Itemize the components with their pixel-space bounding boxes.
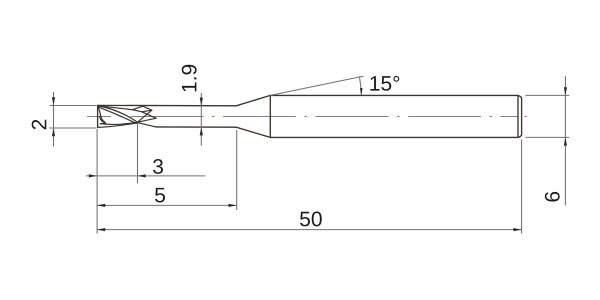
angle 15 leader line — [270, 76, 363, 95]
valley to neck bottom edge — [137, 123, 155, 127]
dimension 3 extension line right — [86, 123, 205, 234]
dimension 6 arrows — [564, 87, 567, 145]
angle 15 label — [370, 76, 399, 91]
dimension 5 line — [97, 204, 237, 206]
dimension 3 label — [153, 159, 163, 174]
dimension 6 line — [564, 76, 566, 206]
bottom groove band upper edge — [100, 122, 137, 124]
dimension 3 arrows — [89, 174, 146, 177]
dimension 6 extension lines — [526, 76, 570, 206]
shank bottom — [270, 136, 517, 138]
dimension 1.9 arrows — [200, 98, 203, 136]
dimension 50 arrows — [97, 228, 522, 231]
left common extension line — [96, 129, 98, 234]
taper bottom — [236, 127, 270, 137]
shank top — [270, 94, 517, 96]
angle 15 arc — [360, 77, 362, 95]
centerline end dot — [525, 116, 528, 118]
dimension 50 label — [300, 212, 322, 227]
neck bottom — [156, 126, 237, 128]
shank end chamfer top — [517, 95, 521, 98]
dimension 2 line — [53, 92, 55, 147]
helix cutting edge line — [98, 106, 138, 123]
tip gash outer curve — [100, 116, 106, 123]
top silhouette: cut + neck — [98, 104, 237, 106]
dimension 2 extension lines — [50, 92, 97, 147]
dimension 6 label — [545, 192, 560, 202]
dimension 2 label — [32, 120, 47, 130]
runout edge notch bottom to point — [142, 112, 156, 118]
far flute helix line — [98, 106, 133, 110]
dimension 5 extension line right — [97, 130, 237, 210]
runout edge point to valley — [138, 118, 157, 122]
tool body outline — [98, 95, 522, 137]
shank end chamfer bottom — [517, 134, 521, 137]
taper top — [236, 95, 270, 105]
flute detail — [98, 106, 157, 128]
dimension 5 arrows — [97, 204, 237, 207]
end tooth edge — [98, 106, 101, 116]
dimension 1.9 label — [182, 65, 197, 92]
shank chamfer edge — [517, 95, 519, 137]
dimension 1.9 line — [200, 93, 202, 146]
dimension 5 label — [155, 188, 165, 203]
helix land lower line — [98, 107, 136, 124]
runout edge notch to valley — [138, 110, 152, 122]
angle 15 arrow — [360, 88, 363, 95]
dimension 50 extension line right — [97, 140, 522, 234]
tip gash inner curve — [101, 116, 105, 121]
shank start edge — [269, 95, 271, 137]
upper flute notch quad — [132, 106, 152, 112]
bottom groove band lower edge — [98, 123, 137, 127]
shank right end — [521, 99, 523, 135]
dimension 50 line — [97, 229, 522, 231]
tip gash lower edge — [100, 122, 105, 125]
dimension 2 arrows — [52, 97, 55, 136]
centerline axis — [87, 116, 527, 118]
dimension 3 line — [86, 175, 205, 177]
tip face — [97, 105, 99, 127]
